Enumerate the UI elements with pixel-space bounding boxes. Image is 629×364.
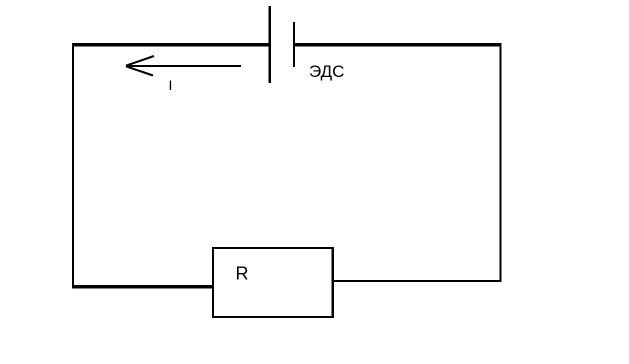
wire: right vertical segment xyxy=(500,43,502,282)
wire: bottom left segment (left corner to resistor) xyxy=(72,285,212,289)
current arrow I: lower barb xyxy=(126,66,153,75)
svg-text:I: I xyxy=(169,77,173,93)
current arrow I: upper barb xyxy=(126,56,154,66)
wire: top left segment (battery negative side to left corner) xyxy=(72,43,269,47)
battery ЭДС: long plate (positive terminal) xyxy=(269,6,272,83)
battery ЭДС: short plate (negative terminal) xyxy=(293,22,295,67)
wire: bottom right segment (resistor to right corner) xyxy=(334,280,501,282)
svg-text:R: R xyxy=(236,264,249,284)
current arrow I: shaft xyxy=(126,65,241,67)
svg-text:ЭДС: ЭДС xyxy=(309,62,344,81)
wire: top right segment (battery to right corner) xyxy=(295,43,501,47)
resistor R (rectangle body) xyxy=(212,247,334,318)
wire: left vertical segment xyxy=(72,43,74,289)
